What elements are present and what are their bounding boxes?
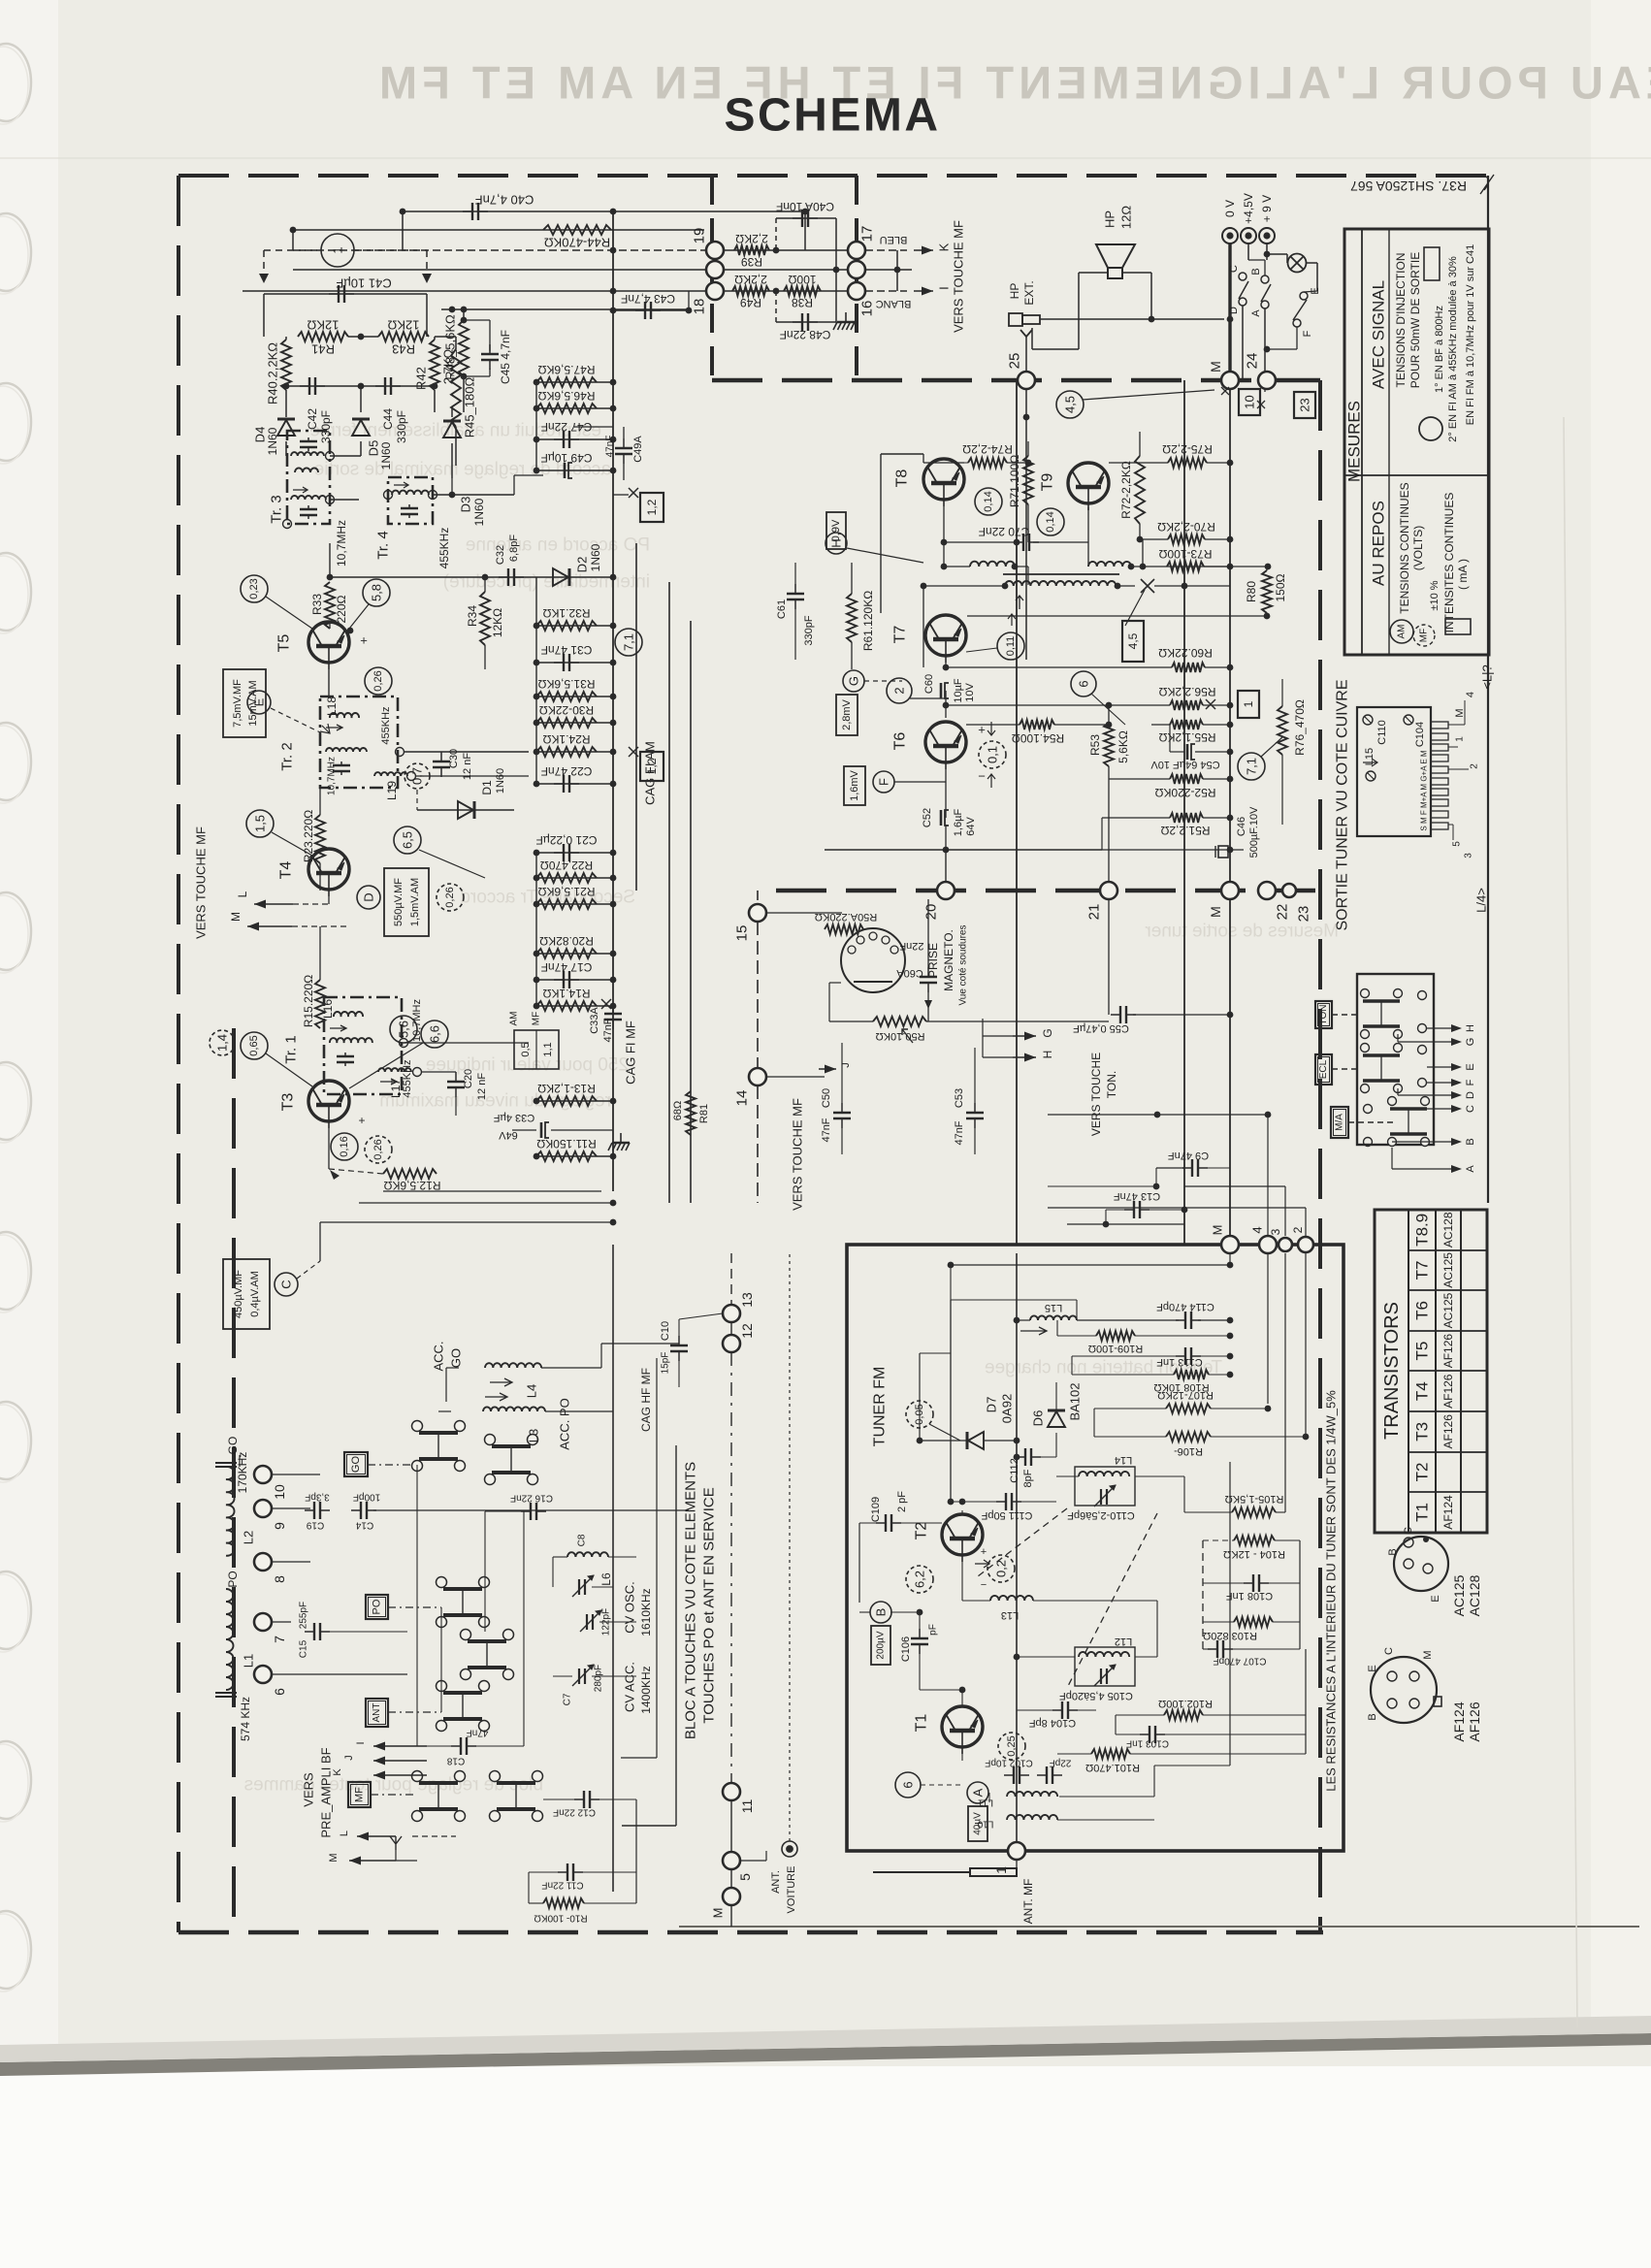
svg-text:4: 4 <box>1250 1226 1265 1233</box>
svg-text:T7: T7 <box>1413 1260 1432 1280</box>
wire <box>328 1128 330 1169</box>
capacitor C40 <box>463 203 488 220</box>
connector 14 <box>749 1068 766 1085</box>
box 200uV <box>871 1626 890 1665</box>
capacitor C112 <box>1016 1448 1041 1466</box>
dash PO <box>388 1606 441 1608</box>
svg-text:+: + <box>981 1546 987 1558</box>
svg-text:K: K <box>937 243 952 251</box>
connector <box>706 261 724 278</box>
svg-text:0,26: 0,26 <box>444 887 456 907</box>
page fold line <box>679 1926 1639 1928</box>
dashed drop <box>426 250 428 276</box>
resistor R103 <box>1234 1617 1273 1627</box>
leader <box>1125 590 1145 626</box>
coil L2 <box>226 1467 235 1556</box>
svg-text:330pF: 330pF <box>319 410 333 443</box>
resistor R109 <box>1096 1331 1135 1341</box>
svg-text:0,5: 0,5 <box>520 1042 532 1056</box>
svg-text:3: 3 <box>1464 853 1474 859</box>
ghost bleed-through title <box>374 57 1651 109</box>
svg-text:C40 4,7nF: C40 4,7nF <box>475 193 534 208</box>
svg-text:AC125: AC125 <box>1441 1252 1455 1288</box>
decorative binding hole <box>0 1402 31 1482</box>
measurement box 7,5mV <box>223 669 266 737</box>
test point 6 b 6 <box>895 1772 921 1798</box>
diode D5 <box>352 419 370 436</box>
box 40uV <box>968 1806 987 1841</box>
svg-text:R33: R33 <box>310 594 324 615</box>
svg-text:L1: L1 <box>242 1654 256 1668</box>
DIN connector prise magneto <box>841 928 905 992</box>
coil L15 <box>1030 1315 1077 1320</box>
svg-text:330pF: 330pF <box>803 615 815 645</box>
svg-text:0 V: 0 V <box>1223 200 1237 217</box>
decorative binding hole <box>0 213 31 294</box>
svg-text:AF124: AF124 <box>1441 1495 1455 1530</box>
trimmer C8 <box>572 1575 594 1597</box>
svg-text:Tr. 4: Tr. 4 <box>375 531 392 559</box>
svg-text:R50.10KΩ: R50.10KΩ <box>875 1030 924 1042</box>
crease vertical <box>1564 417 1577 2027</box>
svg-text:T3: T3 <box>1413 1422 1432 1442</box>
capacitor C108 <box>1244 1574 1269 1592</box>
svg-text:K: K <box>332 1768 343 1776</box>
switch ANT <box>437 1681 490 1732</box>
svg-text:0,26: 0,26 <box>372 670 384 691</box>
leader <box>349 604 369 629</box>
arrow K <box>914 246 933 255</box>
frame right edge <box>1318 380 1322 1932</box>
wire <box>1025 389 1027 417</box>
symbol rect2 <box>1445 619 1471 634</box>
svg-text:Tr. 1: Tr. 1 <box>283 1035 300 1063</box>
svg-text:C49A: C49A <box>632 436 644 463</box>
svg-text:GO: GO <box>226 1437 240 1455</box>
resistor R81 <box>686 1091 696 1135</box>
svg-text:20: 20 <box>923 904 940 921</box>
wire L3 <box>545 1410 613 1412</box>
jack ANT VOITURE <box>782 1841 797 1857</box>
resistor <box>536 1151 597 1161</box>
wire <box>1032 348 1079 350</box>
ghost bleed-through text <box>379 1091 611 1112</box>
capacitor C50 <box>833 1103 851 1128</box>
svg-text:T8.9: T8.9 <box>1413 1214 1432 1247</box>
svg-text:Vue coté soudures: Vue coté soudures <box>958 924 969 1005</box>
arrow H <box>1013 1053 1036 1062</box>
frame top edge <box>178 174 1488 178</box>
svg-text:B: B <box>1387 1548 1399 1555</box>
svg-text:A: A <box>1250 309 1262 317</box>
svg-text:L14: L14 <box>1115 1454 1132 1466</box>
svg-text:G: G <box>847 676 861 686</box>
decorative binding hole <box>0 553 31 633</box>
wire <box>404 751 529 753</box>
svg-text:L4: L4 <box>525 1384 539 1398</box>
wire to 25 <box>1025 337 1027 372</box>
svg-text:SORTIE TUNER VU COTE CUIVRE: SORTIE TUNER VU COTE CUIVRE <box>1335 680 1351 931</box>
svg-text:15mV.AM: 15mV.AM <box>247 680 259 726</box>
svg-text:17: 17 <box>859 226 876 243</box>
svg-text:10: 10 <box>272 1484 287 1500</box>
arrow A <box>1427 1165 1462 1173</box>
decorative binding hole <box>0 1571 31 1652</box>
wire row <box>536 1005 613 1007</box>
resistor R41 <box>298 332 348 341</box>
connector <box>848 261 865 278</box>
svg-text:47nF: 47nF <box>467 1728 489 1738</box>
svg-text:5: 5 <box>1452 841 1463 847</box>
svg-text:L13: L13 <box>1001 1609 1019 1621</box>
svg-text:R10- 100KΩ: R10- 100KΩ <box>534 1913 588 1924</box>
svg-text:14: 14 <box>734 1090 751 1107</box>
connector 5 <box>723 1852 740 1869</box>
svg-text:R102.100Ω: R102.100Ω <box>1158 1698 1213 1709</box>
wire 19-17 <box>724 249 848 251</box>
resistor <box>536 1096 597 1106</box>
svg-text:10: 10 <box>1243 395 1257 408</box>
coil L10 <box>1007 1815 1057 1820</box>
svg-text:C48 22nF: C48 22nF <box>780 328 831 341</box>
connector 19 <box>706 242 724 259</box>
capacitor C70 <box>1014 534 1039 551</box>
svg-text:<L|?: <L|? <box>1480 664 1495 689</box>
svg-text:TON.: TON. <box>1105 1071 1118 1098</box>
wire row <box>536 953 613 955</box>
svg-text:4,5: 4,5 <box>1063 396 1078 413</box>
svg-text:TUNER FM: TUNER FM <box>872 1367 889 1447</box>
svg-text:7,1: 7,1 <box>622 633 636 651</box>
test point 2 2 <box>887 678 912 703</box>
svg-text:12KΩ: 12KΩ <box>491 608 504 637</box>
pin tooth <box>1431 811 1448 818</box>
svg-text:15: 15 <box>734 925 751 942</box>
capacitor C53 <box>966 1103 984 1128</box>
symbol circle <box>1419 417 1442 440</box>
resistor R72 <box>1135 456 1145 524</box>
dashed gang a <box>978 1508 1067 1576</box>
svg-text:M: M <box>1208 361 1223 373</box>
wire <box>724 269 848 271</box>
svg-text:POUR 50mW DE SORTIE: POUR 50mW DE SORTIE <box>1408 252 1422 388</box>
coil L11 <box>1007 1792 1057 1797</box>
svg-text:C110-2,5à6pF: C110-2,5à6pF <box>1067 1509 1135 1521</box>
svg-text:R41: R41 <box>311 342 335 357</box>
wire <box>1131 566 1230 567</box>
svg-text:2: 2 <box>1291 1226 1305 1233</box>
test point A 2 A <box>967 1782 988 1803</box>
svg-text:C13 47nF: C13 47nF <box>1114 1190 1161 1202</box>
svg-text:+: + <box>360 633 368 648</box>
capacitor Tr1 <box>337 1053 354 1066</box>
test point 7,1 7,1 <box>615 629 642 656</box>
frame bottom edge <box>178 1930 1323 1935</box>
wire T5 emitter <box>328 669 330 697</box>
trimmer C105 <box>1094 1665 1116 1686</box>
svg-text:BLANC: BLANC <box>876 298 912 309</box>
svg-text:R43: R43 <box>392 342 415 357</box>
svg-text:T2: T2 <box>914 1522 930 1540</box>
wire <box>894 781 946 783</box>
leader <box>272 832 312 856</box>
svg-text:6,8pF: 6,8pF <box>508 535 520 562</box>
pinout AF124 AF126 <box>1371 1657 1441 1723</box>
capacitor C113 <box>1176 1347 1201 1365</box>
connector 2 <box>1298 1237 1313 1252</box>
svg-text:170KHz: 170KHz <box>236 1452 249 1494</box>
transformer Tr.2 <box>320 697 398 788</box>
svg-text:M/A: M/A <box>1335 1114 1345 1131</box>
connector 10 <box>254 1466 272 1483</box>
svg-text:C33A: C33A <box>589 1007 600 1034</box>
svg-text:L: L <box>339 1831 350 1836</box>
test point 4,5 4,5 <box>1056 391 1084 418</box>
wire <box>926 1021 1109 1022</box>
wire R44 row <box>293 229 704 231</box>
resistor R34 <box>480 592 490 645</box>
svg-text:C20: C20 <box>463 1069 474 1088</box>
svg-text:0,23: 0,23 <box>248 578 260 599</box>
resistor <box>536 899 597 909</box>
wire C9 row <box>1156 1167 1184 1169</box>
svg-text:AC125: AC125 <box>1441 1292 1455 1328</box>
svg-text:0,9V: 0,9V <box>830 519 842 541</box>
test point 0,14 a 0,14 <box>975 488 1002 515</box>
wire 4 col <box>1267 1115 1269 1236</box>
svg-text:L: L <box>236 891 249 897</box>
wire <box>1130 1753 1306 1755</box>
wire speaker right <box>1122 272 1151 274</box>
wire <box>967 615 1267 617</box>
svg-text:1,2: 1,2 <box>645 499 659 515</box>
L12 tank <box>1075 1647 1135 1686</box>
svg-text:L19: L19 <box>385 781 399 800</box>
svg-text:455KHz: 455KHz <box>437 528 451 569</box>
ghost bleed-through text <box>443 572 650 593</box>
svg-text:1,5mV.AM: 1,5mV.AM <box>409 878 421 926</box>
svg-text:M: M <box>229 912 243 922</box>
coil L3 <box>483 1407 545 1411</box>
svg-text:12 nF: 12 nF <box>476 1073 488 1100</box>
connector M3 <box>1221 1236 1239 1253</box>
wire L4 <box>541 1367 601 1369</box>
wire <box>1059 1796 1154 1798</box>
svg-text:−: − <box>981 1579 987 1591</box>
electrolytic <box>565 463 572 478</box>
svg-text:T5: T5 <box>1413 1342 1432 1361</box>
svg-text:19: 19 <box>692 228 708 244</box>
capacitor C49A <box>615 438 632 464</box>
svg-text:6,2: 6,2 <box>913 1571 927 1588</box>
symbol MF circle <box>1413 625 1435 646</box>
dash ANT <box>388 1711 441 1713</box>
svg-text:100pF: 100pF <box>353 1492 380 1503</box>
connector M4 <box>723 1888 740 1905</box>
capacitor C41 <box>329 285 354 303</box>
resistor R39 <box>734 245 769 255</box>
bus M top y392 <box>712 378 1320 383</box>
svg-text:T4: T4 <box>278 861 295 880</box>
wire <box>920 1440 967 1442</box>
svg-text:A: A <box>1465 1165 1476 1173</box>
resistor R108 <box>1174 1370 1209 1379</box>
svg-text:C17 47nF: C17 47nF <box>541 960 593 974</box>
svg-text:R21.5,6KΩ: R21.5,6KΩ <box>537 885 595 898</box>
leader <box>419 850 485 878</box>
capacitor Tr2 <box>333 761 350 775</box>
svg-text:R31.5,6KΩ: R31.5,6KΩ <box>537 677 595 691</box>
wire col 4 <box>1267 1253 1269 1404</box>
svg-text:J: J <box>840 1062 852 1068</box>
svg-text:D: D <box>362 892 376 901</box>
wire <box>1284 1186 1286 1236</box>
resistor R38 <box>784 286 821 296</box>
resistor R51 <box>1170 813 1203 823</box>
svg-text:R12.5,6KΩ: R12.5,6KΩ <box>383 1179 440 1192</box>
box AM MF <box>509 1012 560 1070</box>
svg-text:Mesures de sortie tun: Mesures de sortie tuner <box>1145 922 1339 942</box>
svg-text:7,5mV.MF: 7,5mV.MF <box>232 679 243 728</box>
wire y1245 <box>1048 1207 1306 1209</box>
svg-text:R55.1,2KΩ: R55.1,2KΩ <box>1158 730 1215 744</box>
svg-text:M: M <box>1454 708 1466 717</box>
capacitor C13 <box>1124 1201 1149 1218</box>
wire row <box>536 979 613 981</box>
svg-text:10V: 10V <box>964 683 976 702</box>
capacitor C16 <box>521 1503 546 1520</box>
arrow G <box>1013 1032 1036 1041</box>
svg-text:12KΩ: 12KΩ <box>387 318 419 333</box>
coil L16 <box>334 1012 363 1017</box>
svg-text:C103 1nF: C103 1nF <box>1126 1738 1169 1749</box>
dashed drop <box>263 250 265 276</box>
capacitor C44 <box>375 377 401 395</box>
svg-text:+ 9 V: + 9 V <box>1260 195 1274 222</box>
svg-text:BA102: BA102 <box>1068 1382 1083 1420</box>
resistor R101 <box>1091 1749 1130 1759</box>
wire D1 row <box>417 809 514 811</box>
svg-text:C41 10µF: C41 10µF <box>336 276 391 291</box>
pin tooth <box>1431 789 1448 795</box>
switch GO a <box>412 1421 466 1472</box>
svg-text:(VOLTS): (VOLTS) <box>1411 526 1425 570</box>
svg-text:255pF: 255pF <box>299 1602 309 1629</box>
resistor R40 <box>281 340 291 390</box>
svg-text:10µF: 10µF <box>953 678 964 703</box>
arrow M <box>247 923 292 931</box>
capacitor C61 <box>787 584 804 609</box>
svg-text:R24.1KΩ: R24.1KΩ <box>542 732 590 746</box>
arrow L b <box>357 1832 396 1841</box>
svg-text:AM: AM <box>509 1012 520 1026</box>
arrow L <box>254 900 293 909</box>
resistor <box>536 1001 597 1011</box>
svg-text:R80: R80 <box>1245 581 1258 602</box>
bus M middle y918 <box>776 889 1320 893</box>
wire T9 emitter down <box>1087 507 1089 567</box>
terminal 0 V <box>1222 228 1238 243</box>
svg-text:AM: AM <box>1397 625 1408 639</box>
symbol AM circle <box>1390 620 1413 643</box>
diode D1 <box>458 801 474 819</box>
svg-text:R51.2,2Ω: R51.2,2Ω <box>1160 824 1210 837</box>
svg-text:C105 4,5à20pF: C105 4,5à20pF <box>1059 1690 1133 1701</box>
capacitor <box>554 431 579 448</box>
coil L4 <box>485 1363 541 1368</box>
switch PO a <box>437 1577 490 1628</box>
svg-text:0,4µV.AM: 0,4µV.AM <box>249 1271 261 1317</box>
resistor R75 <box>1168 458 1207 468</box>
wire <box>847 548 923 563</box>
wire C43 <box>613 309 689 311</box>
svg-text:E: E <box>1367 1665 1378 1671</box>
svg-text:T9: T9 <box>1040 473 1056 492</box>
test point 0,7 0,7 <box>405 763 430 789</box>
decorative binding hole <box>0 1911 31 1992</box>
svg-text:C104 8pF: C104 8pF <box>1029 1717 1077 1729</box>
svg-text:AC125: AC125 <box>1451 1574 1467 1616</box>
ghost bleed-through text <box>314 460 611 480</box>
arrow K b <box>373 1771 427 1780</box>
svg-text:AU REPOS: AU REPOS <box>1370 501 1388 586</box>
bus x690 <box>668 582 670 1203</box>
arrow E <box>1427 1063 1462 1071</box>
svg-text:R11.150KΩ: R11.150KΩ <box>536 1137 596 1150</box>
decorative binding hole <box>0 723 31 803</box>
leader <box>1261 737 1282 757</box>
capacitor C40A <box>793 210 818 227</box>
svg-text:1: 1 <box>1455 736 1466 742</box>
svg-text:5: 5 <box>737 1873 753 1881</box>
svg-text:±10 %: ±10 % <box>1429 580 1441 610</box>
leader <box>1091 694 1125 725</box>
svg-text:5,8: 5,8 <box>370 584 384 601</box>
wire 21 col <box>1108 779 1110 882</box>
svg-text:T1: T1 <box>914 1714 930 1733</box>
resistor R74 <box>968 458 1007 468</box>
wire to pin 18 <box>243 290 706 292</box>
svg-text:0,25: 0,25 <box>1006 1735 1018 1756</box>
test point 0,65 0,65 <box>241 1032 268 1059</box>
wire <box>416 775 529 777</box>
svg-text:R105-1,5KΩ: R105-1,5KΩ <box>1225 1493 1284 1505</box>
capacitor C60A <box>920 967 937 992</box>
resistor R15 <box>315 980 325 1028</box>
coil output a <box>970 562 1015 567</box>
svg-text:1N60: 1N60 <box>472 498 486 526</box>
wire 18-16 <box>724 290 848 292</box>
wire <box>416 1465 418 1746</box>
wire 0V to M <box>1228 243 1231 380</box>
frame left edge <box>177 176 180 1932</box>
switch M/A contacts <box>1388 1097 1430 1147</box>
svg-text:10,7MHz: 10,7MHz <box>335 520 348 567</box>
wire row <box>536 381 613 383</box>
svg-text:SCHEMA: SCHEMA <box>724 90 940 142</box>
bus CAG FI MF x632 <box>612 211 614 1191</box>
wire 9 <box>272 1507 310 1509</box>
svg-text:C10: C10 <box>660 1321 671 1341</box>
svg-text:F: F <box>877 778 891 786</box>
svg-text:64V: 64V <box>499 1129 518 1141</box>
svg-text:L16: L16 <box>321 999 335 1019</box>
capacitor C11 <box>558 1863 583 1881</box>
wire left col <box>919 1353 921 1441</box>
svg-text:7,1: 7,1 <box>1245 758 1259 775</box>
svg-text:R44-470KΩ: R44-470KΩ <box>544 236 611 250</box>
svg-text:MF: MF <box>532 1012 542 1025</box>
